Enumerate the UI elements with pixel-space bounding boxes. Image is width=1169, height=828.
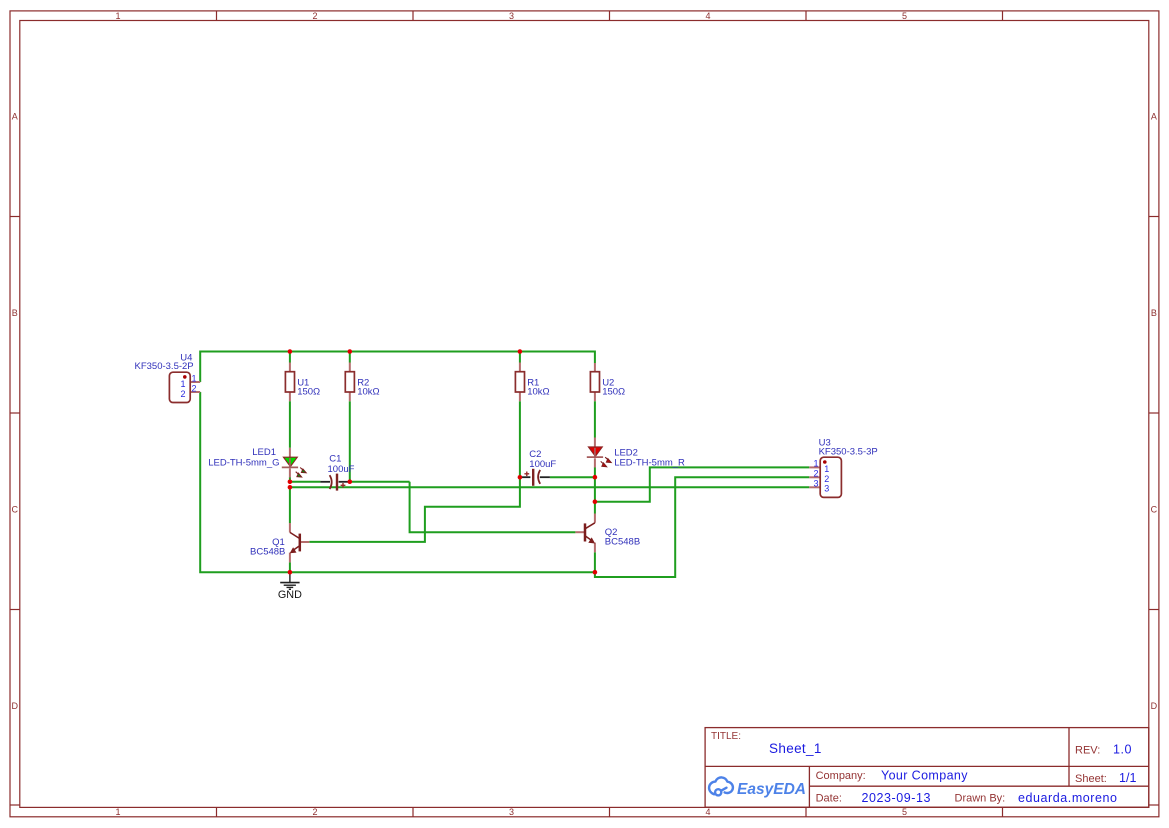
svg-text:Sheet_1: Sheet_1 <box>769 741 821 756</box>
svg-text:1/1: 1/1 <box>1119 771 1136 785</box>
svg-text:1: 1 <box>191 373 196 383</box>
svg-text:Drawn By:: Drawn By: <box>955 793 1006 805</box>
svg-text:3: 3 <box>509 11 514 21</box>
svg-text:A: A <box>12 112 18 122</box>
svg-text:2: 2 <box>813 468 818 478</box>
svg-text:D: D <box>12 701 19 711</box>
svg-text:2: 2 <box>312 807 317 817</box>
svg-text:2023-09-13: 2023-09-13 <box>862 791 931 805</box>
svg-text:1: 1 <box>813 459 818 469</box>
svg-text:10kΩ: 10kΩ <box>357 387 379 398</box>
svg-text:B: B <box>1151 308 1157 318</box>
svg-text:Sheet:: Sheet: <box>1075 773 1107 785</box>
svg-text:4: 4 <box>705 807 710 817</box>
svg-text:3: 3 <box>509 807 514 817</box>
svg-text:4: 4 <box>705 11 710 21</box>
svg-text:2: 2 <box>180 389 185 399</box>
svg-text:150Ω: 150Ω <box>297 387 320 398</box>
svg-text:EasyEDA: EasyEDA <box>737 781 806 798</box>
svg-text:2: 2 <box>312 11 317 21</box>
svg-text:KF350-3.5-2P: KF350-3.5-2P <box>135 361 194 372</box>
svg-text:D: D <box>1151 701 1158 711</box>
svg-text:1: 1 <box>115 11 120 21</box>
svg-text:LED-TH-5mm_R: LED-TH-5mm_R <box>614 458 685 469</box>
svg-text:100uF: 100uF <box>529 459 556 470</box>
svg-text:5: 5 <box>902 11 907 21</box>
svg-text:LED-TH-5mm_G: LED-TH-5mm_G <box>208 458 279 469</box>
svg-text:Your Company: Your Company <box>881 768 968 782</box>
svg-text:1.0: 1.0 <box>1113 743 1131 757</box>
svg-text:KF350-3.5-3P: KF350-3.5-3P <box>819 447 878 458</box>
svg-text:100uF: 100uF <box>328 464 355 475</box>
svg-text:C: C <box>1151 505 1158 515</box>
svg-text:1: 1 <box>115 807 120 817</box>
svg-text:1: 1 <box>180 379 185 389</box>
svg-text:2: 2 <box>191 383 196 393</box>
svg-text:REV:: REV: <box>1075 745 1100 757</box>
svg-text:150Ω: 150Ω <box>602 387 625 398</box>
svg-text:A: A <box>1151 112 1157 122</box>
svg-text:eduarda.moreno: eduarda.moreno <box>1018 791 1117 805</box>
svg-text:BC548B: BC548B <box>250 547 285 558</box>
svg-text:LED1: LED1 <box>252 447 276 458</box>
svg-text:GND: GND <box>278 589 302 601</box>
svg-text:C: C <box>12 505 19 515</box>
svg-text:B: B <box>12 308 18 318</box>
svg-text:TITLE:: TITLE: <box>711 731 741 742</box>
svg-text:2: 2 <box>824 474 829 484</box>
svg-text:1: 1 <box>824 464 829 474</box>
svg-text:5: 5 <box>902 807 907 817</box>
svg-text:BC548B: BC548B <box>605 537 640 548</box>
svg-text:10kΩ: 10kΩ <box>527 387 549 398</box>
svg-text:Company:: Company: <box>816 770 866 782</box>
svg-text:Date:: Date: <box>816 793 842 805</box>
svg-text:3: 3 <box>824 484 829 494</box>
svg-text:3: 3 <box>813 478 818 488</box>
